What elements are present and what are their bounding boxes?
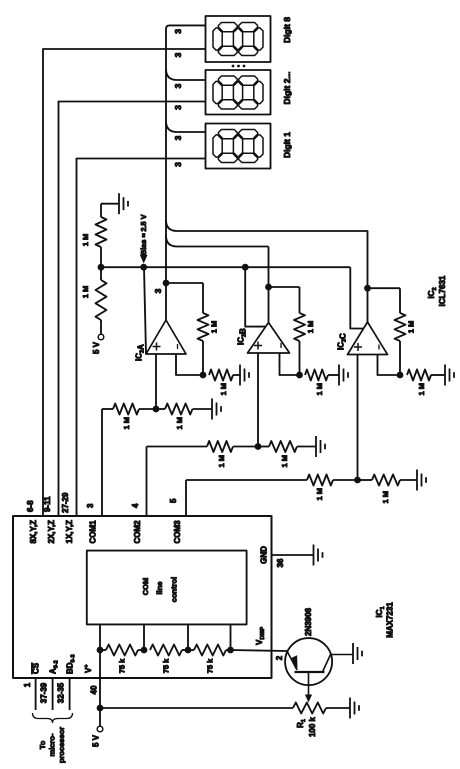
ground IC2C - input [444,365,446,386]
node bias to IC2B supply [242,264,249,271]
svg-text:2: 2 [275,655,284,660]
ground at R1 [349,698,351,719]
wire COM1 down [102,408,113,410]
wire to IC2B + input [257,353,259,447]
pin VDISP wire [231,650,288,651]
svg-text:ICL7631: ICL7631 [438,275,447,306]
segment bus 1X,Y,Z rail [77,159,206,517]
svg-text:1 M: 1 M [175,417,184,430]
display Digit 1 box [206,124,271,169]
segment bus 2X,Y,Z rail [59,102,206,517]
resistor 1M IC2A feedback [202,341,204,375]
resistor 75k a [106,645,138,656]
node IC2A output [163,280,170,287]
svg-text:Digit 8: Digit 8 [282,17,292,43]
node IC2C noninverting input [354,477,361,484]
svg-text:32-35: 32-35 [57,682,66,703]
stub chain to COM block 4 [230,624,232,650]
base lead / wiper arrow to R1 [308,672,310,698]
svg-text:8X,Y,Z: 8X,Y,Z [29,520,38,544]
resistor 1M IC2C + to ground [358,479,373,481]
pin COM2 wire [146,447,148,517]
wire 5V to divider [100,320,102,334]
wire IC2B output [268,247,270,323]
svg-text:75 k: 75 k [162,658,171,673]
wire bias to IC2C [350,267,363,328]
pin COM3 wire [185,480,187,516]
svg-text:1 M: 1 M [81,286,90,299]
resistor 1M IC2A - to ground [209,370,233,381]
svg-text:75 k: 75 k [118,658,127,673]
inner block COM line control [87,551,247,625]
resistor 1M IC2B - to ground [305,370,328,381]
svg-text:27-29: 27-29 [61,492,70,513]
stub chain to COM block 2 [143,624,145,650]
node IC2B output [265,284,272,291]
op-amp IC2A [146,320,186,354]
chain junction top [97,647,104,654]
wire to IC2A + input [155,354,157,409]
op-amp IC2B [248,323,290,354]
COM bus spine [166,25,206,320]
svg-text:1 M: 1 M [315,488,324,501]
ground at transistor collector [352,643,354,664]
resistor 1M IC2B + to ground [258,446,269,448]
wire to IC2C + input [357,355,359,481]
wire IC2B feedback to output [269,286,300,288]
svg-text:40: 40 [90,685,99,694]
bias arrow [140,255,148,264]
wire IC2B - input [280,353,300,375]
wire bias to IC2A [144,267,146,354]
svg-text:processor: processor [57,727,66,763]
svg-text:4: 4 [131,503,140,508]
wire IC2C feedback to output [368,287,401,289]
svg-text:COM2: COM2 [133,520,142,544]
svg-text:3: 3 [86,503,95,508]
chain junction bottom / VDISP node [227,647,234,654]
svg-text:3: 3 [173,29,183,34]
ellipsis between digits [232,65,235,68]
svg-text:37-39: 37-39 [40,682,49,703]
resistor 1M divider upper [100,247,102,267]
chain junction 3 [185,647,192,654]
bus join digit1 [166,121,206,132]
node V+ / 5V [97,705,104,712]
svg-text:36: 36 [276,558,285,567]
svg-text:1 M: 1 M [122,417,131,430]
pin V+ wire [99,678,101,726]
resistor 75k c [194,645,226,656]
svg-text:line: line [155,582,164,595]
resistor 1M IC2B feedback [299,341,301,375]
svg-text:1X,Y,Z: 1X,Y,Z [65,520,74,544]
svg-text:1 M: 1 M [417,383,426,396]
display Digit 8 box [206,16,271,62]
wire IC2C output [166,220,368,322]
terminal 5V bias [98,334,104,340]
bias line [101,266,350,268]
svg-text:MAX7231: MAX7231 [386,602,395,638]
svg-text:75 k: 75 k [206,658,215,673]
wire COM3 down [186,479,307,481]
ground IC2A + input [211,399,213,420]
pin GND wire [272,554,314,556]
svg-text:100 k: 100 k [308,716,317,737]
ground IC2C + input [416,470,418,491]
display Digit 2 box [206,70,271,115]
svg-text:3: 3 [173,105,183,110]
resistor 1M IC2A + to ground [165,404,193,415]
node IC2B noninverting input [255,443,262,450]
svg-text:3: 3 [153,288,163,293]
wire V+ to R1 [100,707,293,709]
svg-text:6-8: 6-8 [26,500,35,512]
digit 2 eight figure [213,81,222,103]
svg-text:1 M: 1 M [315,383,324,396]
svg-text:To: To [38,740,47,749]
svg-text:3: 3 [173,162,183,167]
node IC2A inverting [200,372,207,379]
svg-text:1 M: 1 M [81,234,90,247]
svg-text:2X,Y,Z: 2X,Y,Z [47,520,56,544]
op-amp IC2C [348,322,388,355]
node IC2C inverting [397,372,404,379]
node bias to IC2A supply [140,264,147,271]
svg-text:5 V: 5 V [92,341,101,354]
chain junction 2 [141,647,148,654]
svg-text:control: control [170,577,179,602]
resistor 1M divider lower [96,280,107,320]
svg-text:5 V: 5 V [92,734,101,747]
svg-text:1 M: 1 M [381,491,390,504]
svg-text:Digit 2...: Digit 2... [282,71,292,104]
svg-text:micro-: micro- [48,733,57,756]
svg-text:COM3: COM3 [173,520,182,544]
riser IC2B output to COM bus [166,236,269,247]
ground IC2B - input [338,365,340,386]
resistor 1M COM2 series [207,441,233,452]
svg-text:5: 5 [169,498,178,503]
75k bias chain wire [99,650,101,678]
transistor Q1 2N3906 [285,638,332,685]
wire COM2 down [147,446,208,448]
svg-text:1 M: 1 M [280,455,289,468]
svg-text:COM1: COM1 [89,520,98,544]
pin CS stub [35,678,37,710]
svg-text:1 M: 1 M [306,321,315,334]
wire IC2A - input [176,354,203,375]
svg-text:Bias ≈ 2.5 V: Bias ≈ 2.5 V [139,214,148,255]
svg-text:1 M: 1 M [217,455,226,468]
svg-text:CS: CS [32,662,41,674]
svg-text:GND: GND [260,546,269,564]
node IC2A noninverting input [153,406,160,413]
svg-text:3: 3 [173,135,183,140]
digit 8 eight figure [213,28,222,50]
stub chain to COM block 3 [187,624,189,650]
svg-text:1 M: 1 M [210,321,219,334]
pin A0-2 stub [52,678,54,710]
resistor 1M IC2C - to ground [407,370,431,381]
wire IC2C - input [378,355,401,376]
svg-text:2N3906: 2N3906 [304,607,313,636]
segment bus 8X,Y,Z rail [43,49,206,516]
wire feedback to output [166,282,203,284]
svg-text:Digit 1: Digit 1 [282,132,292,158]
pin BD0-3 stub [69,678,71,710]
ground GND pin [313,545,315,566]
svg-text:COM: COM [141,578,150,596]
resistor 75k b [150,645,182,656]
resistor 1M COM1 series [113,404,139,415]
digit 1 eight figure [213,135,222,157]
pin COM1 wire [101,409,103,516]
node bias divider [98,264,105,271]
brace to microprocessor [33,713,73,723]
resistor 1M COM3 series [307,475,333,486]
potentiometer R1 100k [293,703,326,714]
ground divider [100,204,102,217]
stub chain to COM block 1 [99,624,101,650]
svg-text:1 M: 1 M [407,321,416,334]
ground IC2A - input [239,365,241,386]
node IC2C output [364,285,371,292]
node IC2B inverting [296,372,303,379]
bus join digit2 [166,69,206,80]
resistor 1M IC2C feedback [399,341,401,375]
terminal 5V [97,726,103,732]
svg-text:1: 1 [23,682,32,687]
svg-text:1 M: 1 M [219,383,228,396]
wire bias to IC2B [245,267,266,326]
svg-text:3: 3 [173,52,183,57]
IC1 MAX7231 outline [13,516,272,678]
svg-text:9-11: 9-11 [43,496,52,512]
svg-text:3: 3 [173,83,183,88]
ground IC2B + input [315,436,317,457]
